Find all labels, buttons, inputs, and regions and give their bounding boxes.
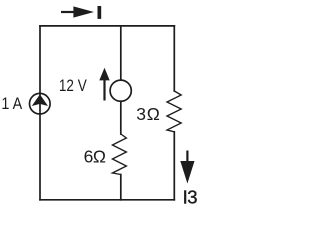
resistor 6 ohm zigzag	[112, 134, 126, 175]
wire top	[40, 25, 174, 27]
voltage source circle (12 V)	[110, 80, 131, 101]
svg-text:12 V: 12 V	[59, 77, 87, 96]
wire middle bottom segment	[120, 175, 122, 200]
wire bottom	[40, 199, 174, 201]
svg-text:I3: I3	[183, 186, 198, 207]
current source circle (1 A)	[30, 93, 51, 114]
voltage source polarity arrow	[99, 68, 109, 101]
resistor 3 ohm zigzag	[167, 91, 181, 132]
current I arrow (top)	[61, 6, 94, 17]
wire middle top segment	[120, 26, 122, 80]
label I	[98, 6, 102, 19]
svg-text:6Ω: 6Ω	[84, 147, 106, 167]
svg-text:1 A: 1 A	[1, 95, 22, 113]
svg-text:3Ω: 3Ω	[136, 104, 160, 124]
wire right bottom segment	[173, 132, 175, 200]
wire right top segment	[173, 26, 175, 91]
current I3 arrow (bottom right)	[180, 151, 194, 184]
wire left (continuous through source)	[39, 26, 41, 200]
wire middle segment between source and resistor	[120, 101, 122, 134]
current source arrow head	[32, 94, 48, 106]
